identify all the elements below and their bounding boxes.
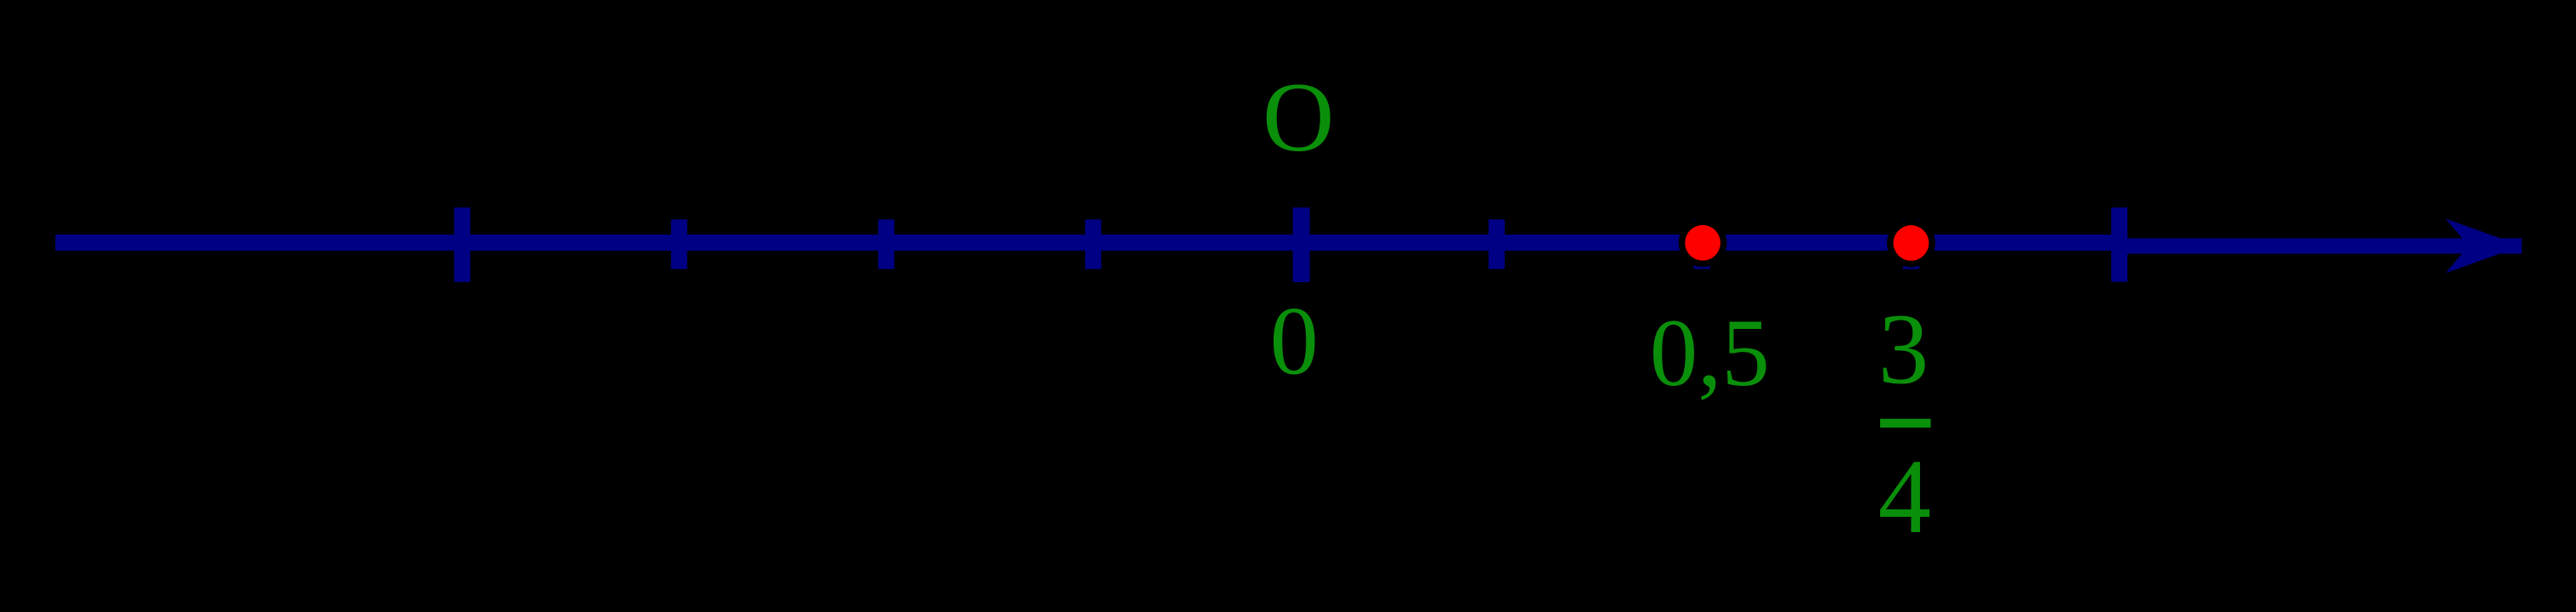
svg-text:0,5: 0,5 <box>1650 300 1770 406</box>
svg-text:0: 0 <box>1270 286 1319 394</box>
arrowhead at right end of axis <box>2446 218 2522 273</box>
wire: number-line right segment (slightly lower) <box>2127 238 2522 253</box>
tick 0 (tall, origin) <box>1293 207 1310 282</box>
red point at 0.75 <box>1894 225 1929 261</box>
tick 0.75 (short, under dot) <box>1903 219 1919 269</box>
red point at 0.5 <box>1685 225 1720 261</box>
wire: number-line main segment <box>55 235 2127 251</box>
svg-text:4: 4 <box>1878 439 1932 556</box>
black halo around dot 0.75 <box>1887 219 1935 268</box>
tick -0.25 (short) <box>1085 219 1101 269</box>
tick 0.25 (short) <box>1489 219 1505 269</box>
tick -0.5 (short) <box>878 219 895 269</box>
tick 1 (tall) <box>2111 207 2127 282</box>
black halo around dot 0.5 <box>1679 218 1727 267</box>
svg-text:O: O <box>1263 63 1335 173</box>
tick 0.5 (short, under dot) <box>1694 219 1710 269</box>
fraction bar <box>1880 419 1931 428</box>
tick -0.75 (short) <box>671 219 687 269</box>
tick -1 (tall) <box>455 207 471 282</box>
svg-text:3: 3 <box>1878 293 1929 405</box>
